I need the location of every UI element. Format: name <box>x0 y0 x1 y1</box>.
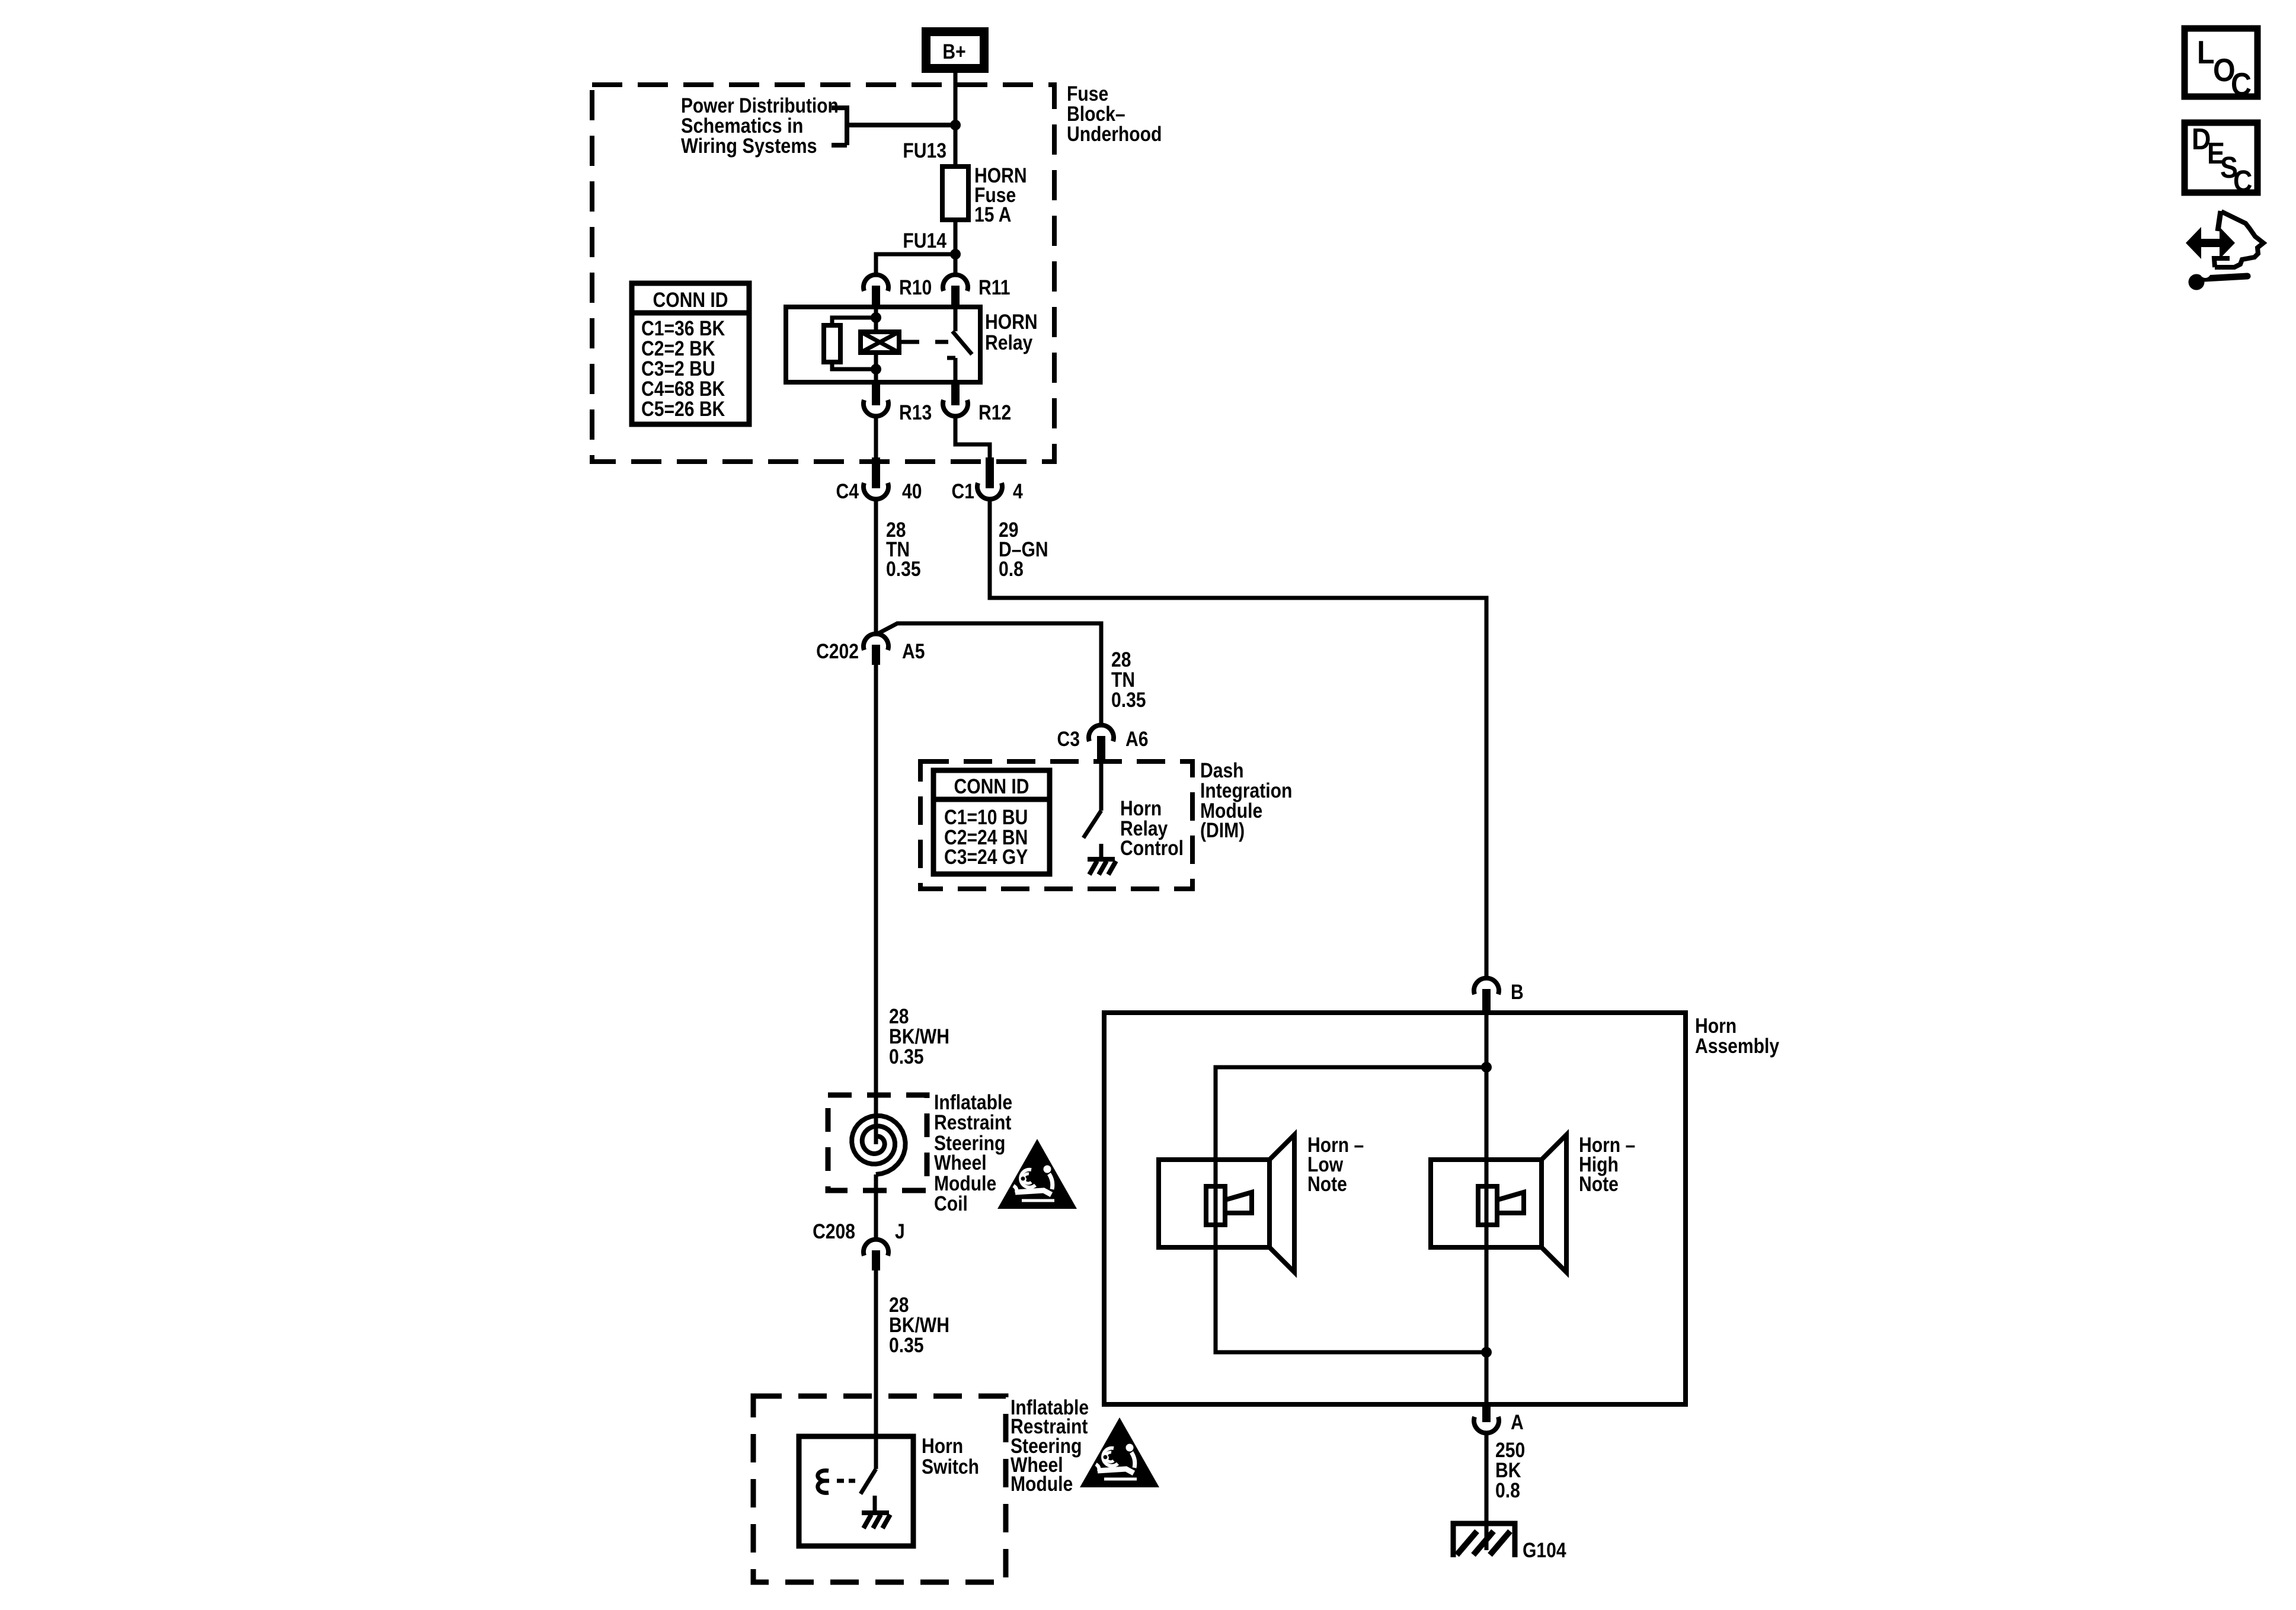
svg-text:0.35: 0.35 <box>1111 688 1146 712</box>
svg-text:C: C <box>2231 66 2252 103</box>
wire: C208 down to horn switch <box>874 1269 878 1469</box>
svg-text:G104: G104 <box>1523 1538 1566 1562</box>
node: coil top <box>871 312 881 323</box>
svg-text:4: 4 <box>1013 479 1023 503</box>
relay armature linkage <box>901 340 948 344</box>
relay coil winding (box with X) <box>874 306 878 382</box>
node: loop bottom <box>1481 1347 1492 1358</box>
power feed B+ terminal <box>922 27 989 73</box>
svg-text:A: A <box>1511 1410 1524 1434</box>
connector pin R13 <box>864 400 888 416</box>
svg-text:40: 40 <box>902 479 922 503</box>
node: FU14 junction <box>950 249 961 260</box>
horn assembly box <box>1104 1013 1686 1404</box>
wire: horn low note parallel loop <box>1216 1067 1486 1352</box>
wire: bracket from note to B+ feed <box>832 105 955 145</box>
svg-text:A6: A6 <box>1125 727 1148 751</box>
CONN ID table (DIM) <box>933 770 1050 874</box>
horn high note <box>1431 1160 1542 1247</box>
svg-text:FU13: FU13 <box>903 139 946 162</box>
svg-text:Restraint: Restraint <box>934 1110 1012 1134</box>
horn low note <box>1159 1160 1269 1247</box>
dash integration module dashed outline <box>920 761 1192 889</box>
svg-text:0.8: 0.8 <box>999 557 1024 581</box>
coil: clockspring spiral <box>852 1116 905 1174</box>
svg-text:15 A: 15 A <box>974 203 1011 226</box>
svg-text:C202: C202 <box>816 639 859 663</box>
svg-text:Wiring Systems: Wiring Systems <box>681 134 817 158</box>
resistor: relay suppression resistor <box>832 318 876 369</box>
svg-text:FU14: FU14 <box>903 229 946 252</box>
svg-text:R11: R11 <box>978 276 1011 299</box>
svg-text:C208: C208 <box>813 1219 855 1243</box>
svg-text:0.35: 0.35 <box>886 557 921 581</box>
ground (DIM internal) <box>1088 857 1115 862</box>
svg-text:Control: Control <box>1120 836 1184 860</box>
connector pin B <box>1474 978 1499 994</box>
relay K: HORN Relay box <box>786 307 980 382</box>
wire: C1 over to horn assembly <box>990 500 1486 978</box>
LOC reference box <box>2185 28 2257 97</box>
wire: branch to relay coil R10 <box>876 254 955 274</box>
svg-text:R13: R13 <box>899 401 932 424</box>
svg-text:J: J <box>895 1219 905 1243</box>
horn switch fixed contact <box>873 1496 877 1512</box>
connector C3 pin A6 <box>1089 725 1114 741</box>
horn switch spring contact <box>818 1471 829 1493</box>
svg-text:CONN ID: CONN ID <box>653 288 728 312</box>
svg-text:Switch: Switch <box>922 1455 979 1478</box>
relay switch contact <box>947 306 972 382</box>
svg-text:Wheel: Wheel <box>934 1151 987 1174</box>
node: loop top <box>1481 1062 1492 1073</box>
CONN ID table (fuse block) <box>632 283 749 424</box>
connector pin R10 <box>864 275 888 291</box>
wire: C202 down to coil <box>874 664 878 1144</box>
switch: horn switch box <box>799 1436 913 1546</box>
svg-text:Horn: Horn <box>922 1434 963 1458</box>
component locator icon (arrows and wrench) <box>2186 211 2263 290</box>
switch: horn relay control driver <box>1083 755 1101 858</box>
connector pin R12 <box>943 400 968 416</box>
wire: A down to G104 <box>1485 1433 1489 1550</box>
svg-text:R10: R10 <box>899 276 932 299</box>
svg-text:CONN ID: CONN ID <box>954 774 1029 798</box>
wire: R12 jog to C1 <box>955 417 990 462</box>
svg-text:(DIM): (DIM) <box>1200 818 1245 842</box>
svg-text:C3=24 GY: C3=24 GY <box>944 845 1028 869</box>
connector C208 pin J <box>864 1240 888 1256</box>
svg-text:Note: Note <box>1579 1172 1619 1196</box>
warning triangle (SIR) 2 <box>1080 1417 1159 1487</box>
svg-text:0.35: 0.35 <box>889 1333 924 1357</box>
wire: coil to C208 <box>874 1174 878 1239</box>
svg-text:Underhood: Underhood <box>1067 122 1162 146</box>
node: coil bottom <box>871 364 881 375</box>
svg-text:R12: R12 <box>978 401 1011 424</box>
svg-text:Module: Module <box>1011 1472 1073 1496</box>
svg-text:C: C <box>2233 165 2252 198</box>
inflatable restraint steering wheel module coil dashed outline <box>828 1095 927 1190</box>
svg-text:0.8: 0.8 <box>1495 1478 1520 1502</box>
inflatable restraint steering wheel module dashed outline <box>753 1396 1006 1582</box>
wire: fuse to FU14 junction <box>954 220 958 274</box>
connector C202 pin A5 <box>864 634 888 650</box>
connector C4 pin 40 <box>864 483 888 499</box>
svg-text:L: L <box>2197 34 2215 71</box>
ground (horn switch internal) <box>862 1510 889 1515</box>
svg-text:B+: B+ <box>942 40 965 63</box>
svg-text:C3: C3 <box>1057 727 1080 751</box>
node: FU13 tap junction <box>950 120 961 130</box>
svg-text:B: B <box>1511 980 1524 1004</box>
fuse block underhood dashed outline <box>592 85 1054 462</box>
svg-text:C5=26 BK: C5=26 BK <box>641 397 725 421</box>
wire: B+ down to fuse FU13 <box>954 73 958 167</box>
warning triangle (SIR) <box>997 1139 1077 1209</box>
svg-text:HORN: HORN <box>985 310 1038 334</box>
connector pin A <box>1474 1417 1499 1433</box>
wire: C4 down to C202 <box>874 500 878 633</box>
svg-text:Note: Note <box>1307 1172 1347 1196</box>
connector C1 pin 4 <box>977 483 1002 499</box>
svg-text:Assembly: Assembly <box>1695 1034 1779 1058</box>
svg-text:Coil: Coil <box>934 1192 968 1215</box>
svg-text:C1: C1 <box>952 479 974 503</box>
svg-text:0.35: 0.35 <box>889 1045 924 1068</box>
horn switch blade <box>861 1469 876 1494</box>
wire: horn assembly main vertical <box>1485 1010 1489 1404</box>
DESC reference box <box>2185 123 2257 193</box>
connector pin R11 <box>943 275 968 291</box>
ground G104 <box>1453 1523 1515 1557</box>
svg-text:Relay: Relay <box>985 331 1032 354</box>
svg-text:C4: C4 <box>836 479 859 503</box>
svg-text:A5: A5 <box>902 639 925 663</box>
wire: branch at C202 to DIM <box>876 623 1101 725</box>
wire: R13 to C4 <box>874 417 878 462</box>
